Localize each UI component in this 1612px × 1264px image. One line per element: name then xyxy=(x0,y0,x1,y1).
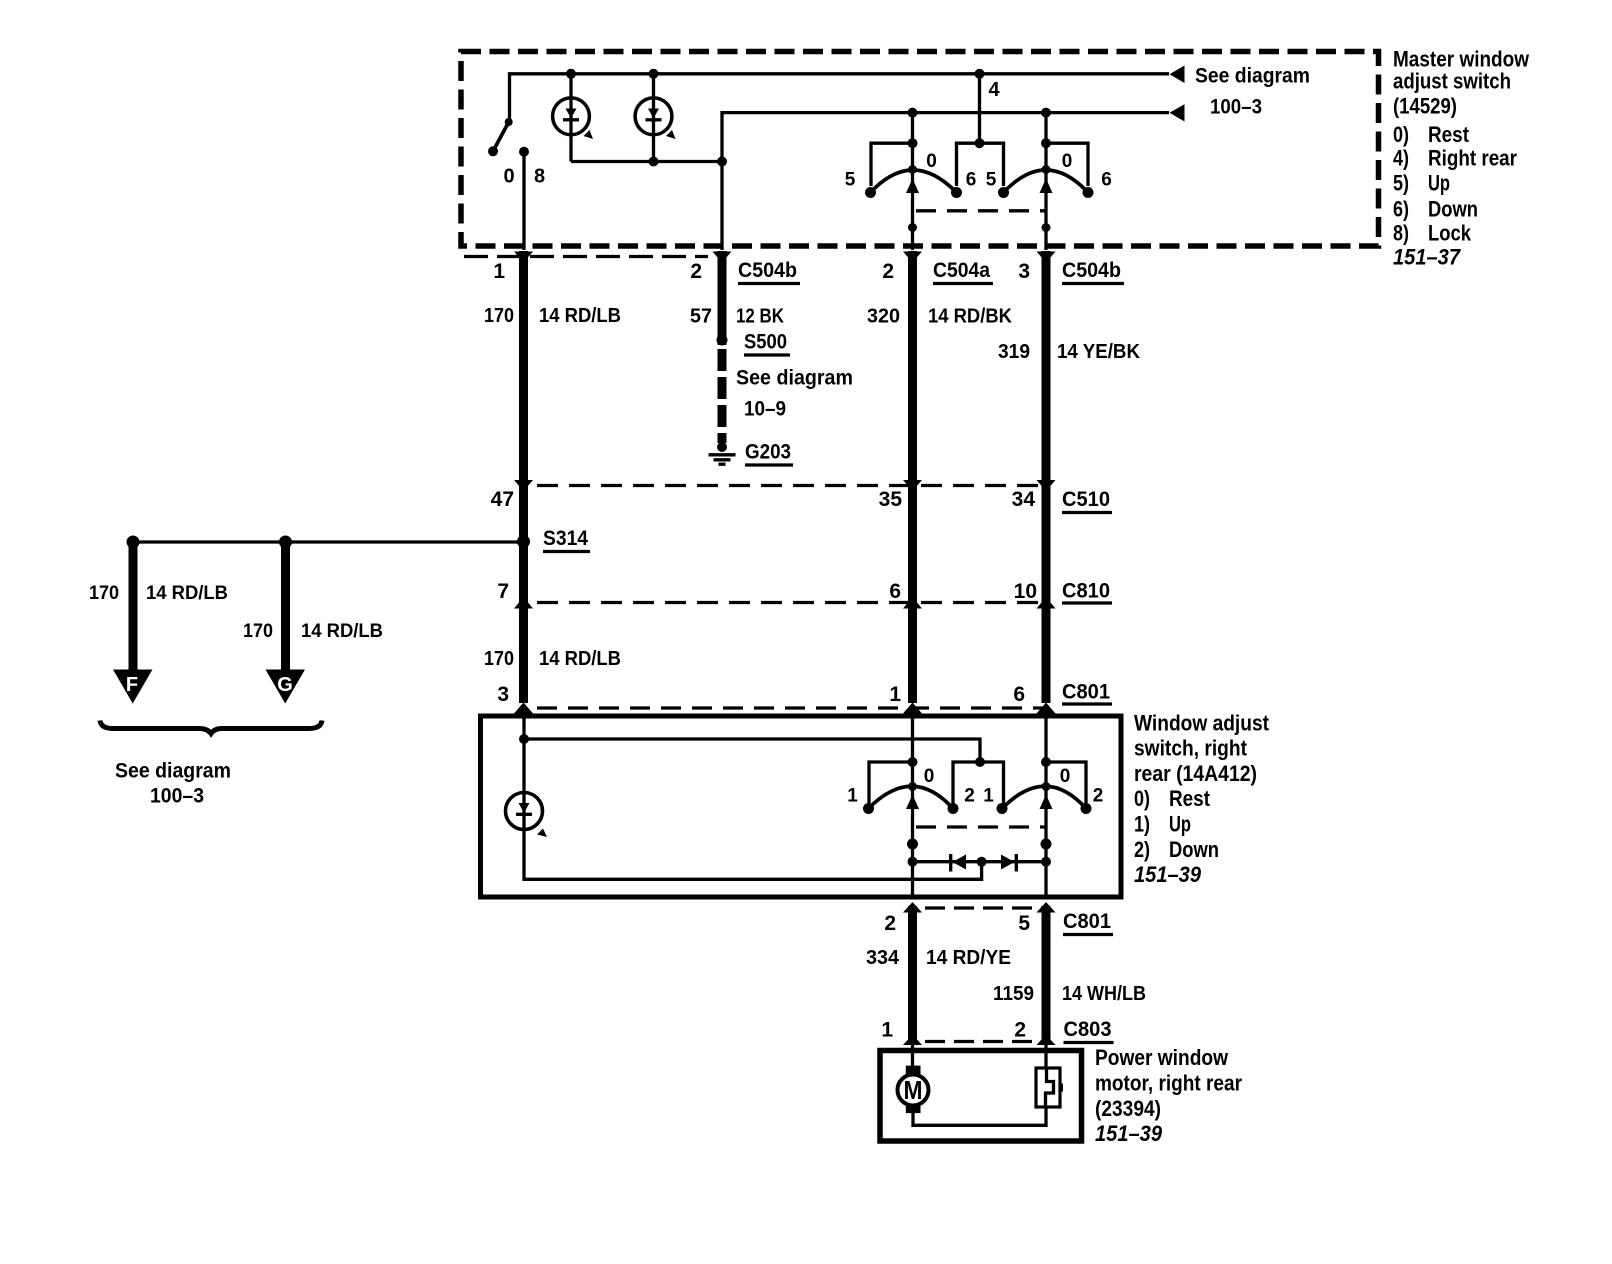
svg-text:8: 8 xyxy=(534,166,545,188)
svg-text:10: 10 xyxy=(1014,580,1037,603)
svg-text:S500: S500 xyxy=(744,331,787,354)
svg-text:100–3: 100–3 xyxy=(150,785,204,808)
svg-text:4): 4) xyxy=(1393,146,1409,171)
svg-text:(23394): (23394) xyxy=(1095,1096,1161,1121)
svg-text:C801: C801 xyxy=(1063,910,1111,933)
svg-text:5: 5 xyxy=(1018,912,1030,935)
svg-text:6: 6 xyxy=(1101,170,1112,191)
svg-text:14 RD/LB: 14 RD/LB xyxy=(539,305,621,327)
svg-text:6): 6) xyxy=(1393,196,1409,221)
svg-text:0: 0 xyxy=(924,766,935,787)
svg-text:6: 6 xyxy=(966,170,977,191)
svg-text:14 RD/LB: 14 RD/LB xyxy=(539,648,621,670)
svg-text:320: 320 xyxy=(867,306,900,328)
svg-text:C504b: C504b xyxy=(1062,259,1121,282)
svg-text:2: 2 xyxy=(1093,786,1104,807)
svg-text:G: G xyxy=(277,674,293,696)
svg-text:14 RD/YE: 14 RD/YE xyxy=(926,947,1011,969)
svg-text:0: 0 xyxy=(1062,151,1073,172)
svg-text:Lock: Lock xyxy=(1428,221,1472,246)
svg-text:151–39: 151–39 xyxy=(1134,862,1202,887)
svg-text:151–39: 151–39 xyxy=(1095,1121,1163,1146)
svg-text:C510: C510 xyxy=(1062,488,1110,511)
svg-text:G203: G203 xyxy=(745,441,791,464)
svg-text:1: 1 xyxy=(847,786,858,807)
svg-text:0: 0 xyxy=(926,151,937,172)
svg-text:adjust switch: adjust switch xyxy=(1393,69,1511,94)
svg-text:5: 5 xyxy=(845,170,856,191)
svg-text:C801: C801 xyxy=(1062,681,1110,704)
svg-text:See diagram: See diagram xyxy=(1195,65,1310,88)
svg-text:2: 2 xyxy=(964,786,975,807)
svg-text:14 WH/LB: 14 WH/LB xyxy=(1062,983,1146,1005)
svg-text:5): 5) xyxy=(1393,171,1409,196)
svg-text:7: 7 xyxy=(497,580,509,603)
svg-text:Rest: Rest xyxy=(1428,122,1470,147)
svg-text:170: 170 xyxy=(484,648,514,670)
svg-text:Master window: Master window xyxy=(1393,46,1530,71)
svg-text:0): 0) xyxy=(1134,786,1150,811)
svg-text:14 YE/BK: 14 YE/BK xyxy=(1057,341,1141,363)
svg-text:170: 170 xyxy=(89,583,119,604)
svg-text:1: 1 xyxy=(881,1019,893,1042)
svg-text:4: 4 xyxy=(988,79,1000,101)
svg-text:See diagram: See diagram xyxy=(115,760,231,783)
svg-text:5: 5 xyxy=(986,170,997,191)
svg-text:1159: 1159 xyxy=(993,983,1034,1005)
svg-text:C504b: C504b xyxy=(738,259,797,282)
svg-text:35: 35 xyxy=(879,488,903,511)
svg-text:12 BK: 12 BK xyxy=(736,306,784,328)
svg-text:8): 8) xyxy=(1393,221,1409,246)
svg-text:34: 34 xyxy=(1012,488,1036,511)
svg-text:2: 2 xyxy=(1014,1019,1026,1042)
svg-text:334: 334 xyxy=(866,947,900,969)
svg-text:F: F xyxy=(126,674,138,696)
svg-text:2): 2) xyxy=(1134,837,1150,862)
svg-text:14 RD/LB: 14 RD/LB xyxy=(146,583,228,604)
svg-text:6: 6 xyxy=(889,580,901,603)
svg-text:2: 2 xyxy=(884,912,896,935)
svg-text:170: 170 xyxy=(484,305,514,327)
svg-text:C504a: C504a xyxy=(933,259,990,282)
svg-text:2: 2 xyxy=(882,260,894,283)
svg-text:1): 1) xyxy=(1134,812,1150,837)
svg-text:57: 57 xyxy=(690,306,712,328)
svg-text:Rest: Rest xyxy=(1169,786,1211,811)
svg-text:3: 3 xyxy=(497,683,509,706)
svg-text:1: 1 xyxy=(493,260,505,283)
svg-text:47: 47 xyxy=(491,488,514,511)
svg-text:See diagram: See diagram xyxy=(736,367,853,390)
svg-text:Window adjust: Window adjust xyxy=(1134,710,1270,735)
svg-text:C803: C803 xyxy=(1064,1018,1112,1041)
svg-text:Power window: Power window xyxy=(1095,1045,1229,1070)
svg-text:14 RD/LB: 14 RD/LB xyxy=(301,621,383,642)
svg-text:switch, right: switch, right xyxy=(1134,736,1248,761)
svg-text:0): 0) xyxy=(1393,122,1409,147)
svg-text:0: 0 xyxy=(503,166,514,188)
svg-text:S314: S314 xyxy=(543,527,588,550)
svg-text:0: 0 xyxy=(1060,766,1071,787)
svg-text:Right rear: Right rear xyxy=(1428,146,1517,171)
svg-text:1: 1 xyxy=(889,683,901,706)
svg-text:Down: Down xyxy=(1169,837,1219,862)
svg-text:(14529): (14529) xyxy=(1393,94,1457,119)
svg-text:2: 2 xyxy=(690,260,702,283)
svg-text:Down: Down xyxy=(1428,196,1478,221)
svg-text:rear (14A412): rear (14A412) xyxy=(1134,761,1257,786)
svg-text:C810: C810 xyxy=(1062,580,1110,603)
svg-text:1: 1 xyxy=(983,786,994,807)
svg-text:319: 319 xyxy=(998,341,1030,363)
svg-text:M: M xyxy=(904,1075,923,1105)
svg-text:3: 3 xyxy=(1018,260,1030,283)
svg-text:170: 170 xyxy=(243,621,273,642)
svg-text:Up: Up xyxy=(1169,812,1191,837)
svg-text:100–3: 100–3 xyxy=(1210,96,1262,119)
svg-text:151–37: 151–37 xyxy=(1393,245,1462,270)
svg-text:10–9: 10–9 xyxy=(744,398,786,421)
svg-text:6: 6 xyxy=(1013,683,1025,706)
svg-text:Up: Up xyxy=(1428,171,1450,196)
svg-text:motor, right rear: motor, right rear xyxy=(1095,1071,1242,1096)
svg-text:14 RD/BK: 14 RD/BK xyxy=(928,306,1013,328)
